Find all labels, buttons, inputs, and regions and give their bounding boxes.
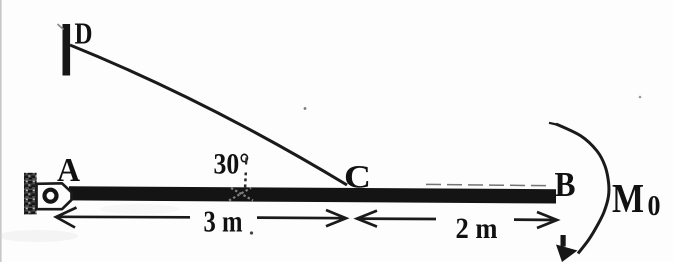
svg-text:A: A	[57, 152, 80, 189]
moment arrowhead stub	[561, 235, 566, 247]
svg-text:0: 0	[648, 191, 661, 222]
scan edge line left	[0, 0, 2, 262]
scan noise dot below 3m	[250, 231, 253, 234]
svg-text:B: B	[555, 165, 576, 204]
svg-text:30°: 30°	[214, 148, 250, 181]
dimension 2m right arrow	[514, 212, 557, 228]
moment arc start tick	[549, 123, 557, 125]
wall anchor at D	[63, 24, 71, 76]
angle dotted line	[244, 173, 247, 191]
wall anchor scan tick	[58, 24, 64, 30]
dimension 3m left arrow	[56, 208, 190, 228]
pin support wall block	[24, 173, 37, 215]
svg-text:M: M	[612, 175, 644, 221]
dimension 2m left arrow	[357, 211, 436, 227]
scan noise dot right	[639, 96, 642, 99]
cable DC	[70, 45, 347, 185]
svg-text:2 m: 2 m	[456, 212, 498, 245]
pin bracket (clevis)	[37, 183, 72, 209]
scan noise dot upper middle	[304, 107, 307, 110]
svg-text:D: D	[75, 16, 93, 51]
scan smudge bottom left	[0, 230, 78, 242]
angle degree tail	[245, 158, 248, 165]
svg-text:C: C	[344, 160, 371, 196]
beam top scan edge line	[426, 184, 549, 185]
dimension 3m right arrow	[257, 210, 346, 226]
svg-text:3 m: 3 m	[204, 204, 243, 239]
scan smudge mid left	[100, 204, 180, 214]
pin circle	[45, 190, 57, 202]
moment arrowhead	[556, 245, 578, 262]
moment arc	[556, 124, 609, 254]
angle arc marks on beam	[229, 188, 253, 201]
beam AB	[69, 186, 556, 203]
